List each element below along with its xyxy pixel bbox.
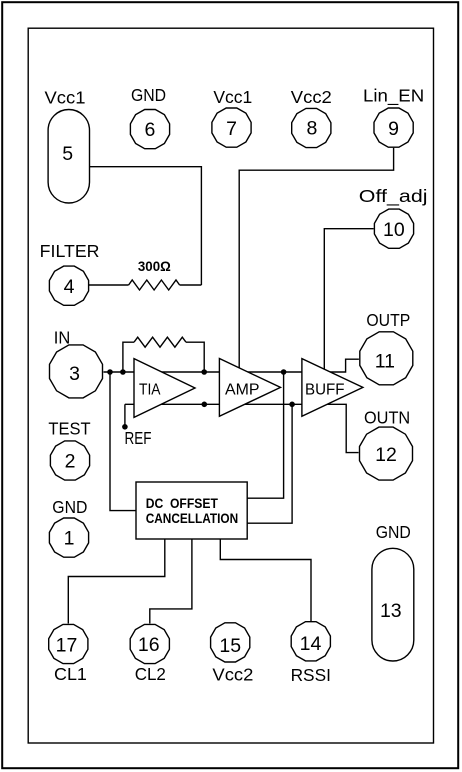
svg-text:1: 1 <box>64 528 75 550</box>
svg-text:4: 4 <box>64 276 75 298</box>
svg-text:16: 16 <box>138 634 160 656</box>
svg-text:Vcc2: Vcc2 <box>212 665 253 685</box>
svg-text:11: 11 <box>375 350 395 372</box>
svg-text:OUTN: OUTN <box>364 407 410 427</box>
svg-text:RSSI: RSSI <box>291 665 331 685</box>
svg-text:OUTP: OUTP <box>366 310 410 330</box>
svg-text:Vcc2: Vcc2 <box>291 87 332 107</box>
svg-text:Lin_EN: Lin_EN <box>363 86 424 107</box>
svg-text:FILTER: FILTER <box>40 241 100 261</box>
svg-text:TIA: TIA <box>139 382 161 399</box>
svg-text:8: 8 <box>306 118 317 140</box>
svg-text:3: 3 <box>69 363 80 385</box>
svg-text:300Ω: 300Ω <box>138 259 171 274</box>
svg-text:IN: IN <box>54 328 71 348</box>
svg-text:6: 6 <box>144 119 155 141</box>
svg-text:Off_adj: Off_adj <box>359 186 428 207</box>
svg-text:7: 7 <box>226 118 237 140</box>
svg-text:GND: GND <box>131 85 166 105</box>
svg-text:GND: GND <box>52 497 87 517</box>
svg-text:5: 5 <box>62 143 73 165</box>
svg-text:DC OFFSET: DC OFFSET <box>146 496 219 511</box>
svg-text:15: 15 <box>219 635 241 657</box>
svg-text:TEST: TEST <box>48 419 90 439</box>
svg-text:2: 2 <box>65 451 76 473</box>
svg-text:CL2: CL2 <box>135 664 166 684</box>
svg-text:14: 14 <box>300 633 322 655</box>
svg-text:Vcc1: Vcc1 <box>213 87 252 107</box>
svg-text:CL1: CL1 <box>54 664 87 684</box>
svg-text:CANCELLATION: CANCELLATION <box>146 511 239 526</box>
svg-text:9: 9 <box>388 118 399 140</box>
svg-text:Vcc1: Vcc1 <box>45 87 86 107</box>
svg-text:AMP: AMP <box>225 382 260 399</box>
svg-text:17: 17 <box>56 634 78 656</box>
svg-text:REF: REF <box>125 428 152 448</box>
svg-text:BUFF: BUFF <box>305 382 345 399</box>
svg-text:13: 13 <box>380 600 402 622</box>
svg-text:10: 10 <box>383 219 405 241</box>
svg-text:12: 12 <box>375 444 397 466</box>
svg-text:GND: GND <box>376 522 411 542</box>
